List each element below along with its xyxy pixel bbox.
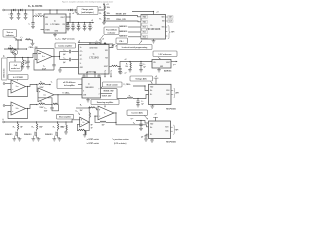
- ground range branch 3 gate: [53, 136, 55, 139]
- svg-text:MODE_DIV: MODE_DIV: [116, 14, 127, 16]
- arrow mode button: [112, 44, 116, 47]
- wire CELL_ON: [4, 48, 27, 50]
- svg-text:VOUT: VOUT: [166, 62, 170, 64]
- arrow current ADC: [145, 116, 148, 120]
- wire KOUT: [109, 66, 112, 68]
- svg-text:* = precision resistor: * = precision resistor: [112, 138, 129, 141]
- wire MODE_SW: [101, 88, 118, 90]
- ground C9: [88, 29, 92, 31]
- transistor Q3 range switch: [35, 130, 37, 138]
- wire feedback to output: [106, 121, 116, 123]
- resistor R2: [104, 11, 105, 15]
- svg-text:1Ω*: 1Ω*: [20, 126, 23, 128]
- node top diff input: [36, 84, 37, 85]
- svg-text:C₁₀: C₁₀: [63, 49, 66, 51]
- svg-text:10µ: 10µ: [86, 26, 88, 28]
- svg-text:D₁, D₂ BAT54: D₁, D₂ BAT54: [28, 5, 43, 8]
- input terminal J1: [3, 9, 5, 11]
- resistor R1: [104, 6, 105, 10]
- node KOUT filter: [119, 66, 120, 67]
- ground C18: [144, 139, 148, 141]
- svg-text:1Ω*: 1Ω*: [25, 63, 28, 65]
- wire U11 IN- cap: [146, 133, 149, 135]
- wire VOUT_DIV: [101, 93, 113, 95]
- svg-text:R₆: R₆: [25, 61, 27, 63]
- node range branch 2: [36, 121, 37, 122]
- ground U4 pins: [83, 74, 85, 76]
- svg-text:CP+: CP+: [80, 51, 83, 53]
- ground U5: [158, 68, 160, 70]
- svg-text:GND: GND: [160, 66, 163, 68]
- ground R18: [65, 131, 67, 133]
- capacitor C19 filter: [119, 67, 121, 69]
- diode D3 charge isolation: [68, 9, 69, 10]
- svg-text:C₁₅: C₁₅: [143, 64, 146, 66]
- svg-text:R₂₁: R₂₁: [53, 126, 56, 128]
- node divider rail junction: [103, 9, 104, 10]
- wire label to U6a: [17, 80, 19, 81]
- capacitor C11: [27, 57, 28, 58]
- resistor R₁₉ shunt: [17, 122, 19, 124]
- svg-text:NC: NC: [80, 55, 82, 57]
- wire summing minus: [95, 115, 98, 117]
- resistor R17 divider to ground: [85, 131, 86, 134]
- svg-text:R₂: R₂: [99, 13, 101, 15]
- resistor R4 base: [8, 48, 14, 49]
- svg-text:C₅-C₉: 10µF ceramic: C₅-C₉: 10µF ceramic: [55, 38, 76, 41]
- resistor R9: [129, 61, 130, 62]
- capacitor C18: [145, 134, 147, 135]
- svg-text:SCK: SCK: [162, 27, 165, 29]
- svg-text:1.2V reference: 1.2V reference: [158, 54, 172, 56]
- capacitor C2: [18, 10, 20, 14]
- wire bottom diff: [45, 104, 52, 106]
- IC U11 MCP3550 current: [149, 121, 171, 139]
- svg-text:ADR361: ADR361: [164, 70, 172, 73]
- ground divider: [103, 21, 105, 22]
- capacitor C7: [78, 22, 79, 23]
- svg-text:1µF: 1µF: [63, 62, 66, 64]
- callout box kelvin buffers: [8, 75, 28, 80]
- resistor R15 to summing node: [88, 118, 90, 123]
- op-amp U6b: [11, 102, 26, 115]
- wire flying cap split: [59, 52, 61, 60]
- resistor R3: [104, 17, 105, 21]
- svg-text:VOUT_DIV: VOUT_DIV: [102, 95, 112, 97]
- svg-text:KIN: KIN: [105, 58, 107, 60]
- wire indicator: [89, 43, 113, 45]
- resistor R18 bus load: [65, 121, 66, 122]
- transistor Q2 range switch: [16, 130, 18, 138]
- callout box combo amplifier: [55, 43, 76, 48]
- ground LED: [31, 43, 35, 45]
- capacitor C1: [11, 10, 13, 14]
- node range branch 1: [17, 121, 18, 122]
- ground C19: [118, 72, 122, 74]
- capacitor C16: [137, 99, 139, 102]
- ground C2: [17, 17, 21, 19]
- svg-text:¹ = DPDT switch: ¹ = DPDT switch: [86, 138, 99, 141]
- callout box differential amplifier: [57, 79, 82, 89]
- svg-text:C₁₆: C₁₆: [141, 101, 144, 103]
- svg-text:R₁₀: R₁₀: [40, 82, 43, 84]
- capacitor C13 feedback: [51, 105, 53, 108]
- ground C8: [83, 29, 87, 31]
- wire D5 junction to CELL_ON wire: [17, 40, 19, 49]
- wire filter node: [133, 95, 149, 99]
- svg-text:U₆c: U₆c: [43, 94, 46, 96]
- node CELL_DIV tap: [103, 20, 104, 21]
- svg-text:+V: +V: [115, 45, 117, 47]
- wire U7 input stub: [78, 84, 82, 86]
- wire top diff: [45, 84, 50, 86]
- wire U6a output: [26, 86, 28, 88]
- svg-text:² = DPDT switch: ² = DPDT switch: [86, 142, 99, 145]
- wire shunt minus: [77, 124, 79, 130]
- capacitor C5: [67, 22, 68, 23]
- svg-text:U₆b: U₆b: [16, 108, 19, 110]
- svg-text:±0.5V differen-: ±0.5V differen-: [63, 81, 76, 84]
- ground U1: [54, 33, 56, 35]
- capacitor C6: [72, 22, 73, 23]
- svg-text:10k*: 10k*: [102, 125, 105, 127]
- svg-text:10µ: 10µ: [69, 26, 71, 28]
- svg-text:1µF: 1µF: [141, 103, 144, 105]
- svg-text:MCP3550: MCP3550: [166, 108, 176, 110]
- pin box RA3: [141, 20, 148, 23]
- wire IC3 lower left pin: [60, 67, 79, 69]
- svg-text:R₁₉: R₁₉: [13, 126, 16, 128]
- svg-text:S−: S−: [80, 63, 82, 65]
- svg-text:U₁: U₁: [54, 21, 56, 23]
- svg-text:+: +: [120, 72, 121, 74]
- inductor L1: [34, 16, 44, 17]
- capacitor C4 input: [32, 17, 34, 23]
- sense terminal S+: [3, 83, 5, 85]
- capacitor C10 flying: [69, 50, 70, 54]
- svg-text:C₁₃: C₁₃: [44, 108, 47, 110]
- ground C5: [66, 29, 70, 31]
- node cell rail Q1: [14, 57, 15, 58]
- node inductor tap: [32, 9, 33, 10]
- capacitor C9: [89, 22, 90, 23]
- svg-text:+V: +V: [110, 71, 112, 73]
- wire Q1 base: [11, 49, 14, 52]
- svg-text:10µ: 10µ: [91, 26, 93, 28]
- svg-text:RC2: RC2: [143, 37, 146, 39]
- arrow charge point to D3: [75, 12, 79, 14]
- wire to op-amp minus: [38, 98, 52, 105]
- pin box RA4: [141, 15, 148, 18]
- svg-text:U₂: U₂: [150, 25, 152, 27]
- resistor R11: [39, 103, 45, 104]
- wire to op-amp plus: [37, 85, 38, 92]
- resistor R12 feedback: [53, 103, 58, 104]
- svg-text:100k: 100k: [107, 7, 110, 9]
- ground range branch 1 gate: [13, 136, 15, 139]
- ground C11: [26, 67, 30, 69]
- svg-text:IN+: IN+: [150, 127, 152, 129]
- pin box RC1: [141, 31, 148, 34]
- svg-text:tial amplifier: tial amplifier: [64, 84, 75, 87]
- svg-text:(wall adapter): (wall adapter): [81, 11, 94, 14]
- wire U8 SPI pins: [171, 90, 173, 92]
- IC U7 analog switch: [82, 78, 101, 99]
- ground C7: [77, 29, 81, 31]
- capacitor C3: [25, 10, 27, 14]
- svg-text:IN−: IN−: [150, 94, 152, 96]
- capacitor C8: [84, 22, 85, 23]
- wire C12 loop: [34, 59, 54, 70]
- wire U6b feedback: [8, 109, 28, 119]
- wire summing feedback: [95, 116, 100, 122]
- transistor Q4 range switch: [56, 130, 58, 138]
- ground lower pin: [58, 70, 62, 72]
- svg-text:V_CELL: V_CELL: [62, 92, 70, 94]
- svg-text:RANGE1¹: RANGE1¹: [119, 25, 127, 28]
- svg-text:PIC16F1936: PIC16F1936: [146, 28, 161, 31]
- wire flying cap 2: [60, 59, 69, 61]
- svg-text:L₁ 10µH: L₁ 10µH: [36, 14, 42, 16]
- callout box charge point: [77, 7, 98, 15]
- svg-text:Combo amplifier: Combo amplifier: [58, 46, 72, 48]
- wire FB pin: [66, 23, 69, 25]
- svg-text:indicator: indicator: [6, 34, 14, 37]
- svg-text:R₂₀: R₂₀: [32, 126, 35, 128]
- svg-text:+V: +V: [104, 71, 106, 73]
- svg-text:LTC3426: LTC3426: [51, 23, 61, 26]
- resistor R6 sense: [22, 57, 23, 58]
- IC U4 LTC1043 switched-cap block: [79, 45, 110, 75]
- svg-text:U₇: U₇: [88, 83, 90, 85]
- wire summing input rail: [76, 107, 89, 109]
- ground U11: [151, 139, 153, 141]
- svg-text:C₁₁: C₁₁: [63, 57, 66, 59]
- svg-text:100k*: 100k*: [40, 107, 44, 109]
- svg-text:VOUT: VOUT: [60, 17, 64, 19]
- svg-text:+V: +V: [78, 40, 80, 42]
- power +V divider top: [103, 3, 105, 5]
- ground U8: [151, 105, 153, 107]
- ground MCU: [153, 39, 155, 41]
- op-amp U10 shunt: [80, 117, 90, 127]
- ground C17: [139, 128, 143, 130]
- op-amp U3a buffer: [37, 50, 52, 63]
- switch SW1: [89, 45, 93, 48]
- wire VREF out: [171, 61, 176, 63]
- wire SPI pins: [166, 26, 168, 28]
- ground range branch 2 gate: [32, 136, 34, 139]
- resistor R16 feedback: [100, 121, 106, 122]
- svg-text:100k: 100k: [107, 19, 110, 21]
- sense terminal S-: [3, 105, 5, 107]
- wire V_CELL into U7: [81, 94, 83, 96]
- svg-text:X: X: [83, 91, 84, 93]
- svg-text:U₃a: U₃a: [42, 56, 45, 58]
- ground range branch 3 source: [58, 138, 60, 139]
- wire U3a output: [52, 56, 60, 58]
- svg-text:10µ: 10µ: [74, 26, 76, 28]
- transistor Q1: [12, 50, 17, 55]
- wire L1 to U1: [43, 16, 46, 18]
- ground C15: [139, 70, 143, 72]
- ground range branch 1 source: [18, 138, 20, 139]
- svg-text:SPI: SPI: [171, 32, 174, 34]
- svg-text:Voltage ADC: Voltage ADC: [135, 78, 147, 81]
- capacitor C17: [140, 121, 142, 125]
- wire U6a feedback: [8, 87, 28, 97]
- callout box ICSP connector: [117, 45, 152, 50]
- svg-text:RC0: RC0: [143, 27, 146, 29]
- wire LED D5: [15, 39, 19, 41]
- wire feedback up: [57, 95, 60, 105]
- svg-text:Q₁: Q₁: [3, 55, 5, 57]
- callout box shunt amplifier: [57, 114, 74, 119]
- bracket SPI group: [168, 26, 170, 39]
- IC U2 PIC16F1936 microcontroller: [141, 15, 166, 40]
- callout box voltage ADC: [130, 76, 153, 81]
- wire shunt plus from bus: [71, 121, 72, 122]
- svg-text:U₉: U₉: [104, 113, 106, 115]
- IC U1 boost converter LTC3426: [44, 14, 66, 33]
- svg-text:R₁₄: R₁₄: [80, 104, 83, 106]
- callout box mode button: [116, 38, 128, 44]
- svg-text:100k: 100k: [107, 13, 110, 15]
- wire summing plus node: [95, 108, 98, 110]
- svg-text:1µF: 1µF: [143, 66, 146, 68]
- wire Q1 collector: [14, 48, 16, 51]
- svg-text:C₁₂: C₁₂: [43, 65, 46, 67]
- callout box mode switch: [103, 82, 123, 87]
- power +V MCU: [132, 11, 154, 13]
- power flag opamp supply: [119, 71, 122, 74]
- svg-text:IN+: IN+: [150, 90, 152, 92]
- resistor R16b shunt feedback: [79, 129, 85, 130]
- svg-text:100Ω*: 100Ω*: [60, 126, 65, 128]
- pin box RC0: [141, 26, 148, 29]
- pin box RC2: [141, 35, 148, 38]
- ground C3: [24, 17, 28, 19]
- op-amp U6c difference: [38, 88, 54, 102]
- ground R9: [129, 69, 131, 70]
- svg-text:+V: +V: [125, 72, 127, 74]
- svg-text:VDD: VDD: [105, 50, 108, 52]
- power +V U7 pin2: [94, 73, 96, 78]
- wire cell rail: [7, 54, 37, 58]
- diode D2: [20, 9, 22, 11]
- arrow test indicator to LED: [14, 37, 18, 39]
- node shunt output: [89, 121, 90, 122]
- wire shunt feedback to output: [85, 122, 90, 131]
- resistor R10: [39, 83, 45, 84]
- svg-text:Mode switch: Mode switch: [107, 84, 119, 87]
- ground C6: [71, 29, 75, 31]
- svg-text:LTC1043: LTC1043: [89, 56, 99, 59]
- svg-text:KOUT: KOUT: [104, 66, 108, 68]
- op-amp U9 summing: [98, 106, 114, 120]
- svg-text:Power/Mode: Power/Mode: [106, 28, 117, 31]
- LED D5: [20, 39, 22, 41]
- wire KOUT to ref rail: [118, 62, 153, 67]
- svg-text:10µ: 10µ: [80, 26, 82, 28]
- svg-text:RANGE3¹: RANGE3¹: [119, 35, 127, 38]
- wire summing output: [114, 112, 116, 114]
- svg-text:U₆ LTC2051: U₆ LTC2051: [13, 77, 23, 79]
- svg-text:10Ω*: 10Ω*: [39, 126, 43, 128]
- op-amp U6a: [11, 80, 26, 93]
- svg-text:RC1: RC1: [143, 32, 146, 34]
- cell holder box: [2, 58, 8, 80]
- wire T_out: [117, 89, 127, 99]
- node MODE_DIV tap: [103, 15, 104, 16]
- diode D1: [13, 9, 15, 11]
- arrow reference: [158, 57, 161, 59]
- resistor R₂₀ shunt: [36, 122, 38, 124]
- svg-text:1µF: 1µF: [141, 136, 144, 138]
- wire LED to ground: [31, 40, 33, 43]
- wire CELL_DIV: [104, 20, 141, 23]
- wire U1 output: [66, 16, 70, 18]
- wire S+ to U6a: [5, 83, 11, 85]
- svg-text:R₄: R₄: [10, 46, 12, 48]
- svg-text:U₄: U₄: [93, 54, 95, 56]
- svg-text:R₁₁: R₁₁: [40, 102, 43, 104]
- IC U8 MCP3550 voltage: [149, 84, 172, 104]
- pin box ICSPCLK: [166, 20, 168, 22]
- svg-text:MAX4053: MAX4053: [86, 86, 94, 89]
- svg-text:GND: GND: [80, 67, 83, 69]
- svg-text:MODE_SW: MODE_SW: [104, 91, 114, 93]
- callout box 1.2V reference: [153, 51, 177, 57]
- resistor R₂₁ shunt: [57, 122, 59, 124]
- ground U7: [87, 98, 89, 100]
- callout box power mode indicator: [104, 27, 119, 35]
- arrow summing: [104, 105, 106, 108]
- svg-text:CELL_DIV: CELL_DIV: [116, 19, 126, 21]
- node bottom diff input: [36, 104, 37, 105]
- arrow voltage ADC: [151, 81, 153, 83]
- svg-text:Current ADC: Current ADC: [131, 112, 143, 115]
- power +V rail end arrow: [92, 22, 94, 24]
- wire MODE_DIV: [104, 16, 141, 17]
- callout box cell under test: [10, 62, 22, 71]
- resistor R4 indicator: [104, 43, 106, 44]
- arrow mode switch: [101, 87, 103, 89]
- capacitor C11 flying: [69, 58, 70, 62]
- ground C16: [136, 105, 140, 107]
- svg-text:R₃: R₃: [99, 19, 101, 21]
- IC U5 voltage reference: [152, 60, 171, 69]
- capacitor C12 filter: [53, 57, 55, 65]
- svg-text:In-circuit serial programming: In-circuit serial programming: [122, 46, 148, 49]
- capacitor C15: [140, 61, 141, 62]
- svg-text:VIN: VIN: [153, 62, 155, 64]
- ground C4: [31, 26, 35, 28]
- ground R6: [22, 66, 24, 67]
- wire U4 VDD to +V: [109, 45, 113, 47]
- svg-text:IN−: IN−: [150, 134, 152, 136]
- svg-text:indicator: indicator: [108, 32, 116, 35]
- svg-text:Y: Y: [98, 89, 99, 91]
- svg-text:Shunt amplifier: Shunt amplifier: [59, 116, 72, 119]
- wire current bus: [5, 121, 72, 123]
- wire inductor feed: [32, 10, 34, 17]
- bus terminal: [3, 121, 5, 123]
- svg-text:Test on: Test on: [6, 31, 13, 34]
- svg-text:RANGE2¹: RANGE2¹: [119, 30, 127, 33]
- wire U1 top pins to rail: [49, 10, 51, 14]
- callout box current ADC: [127, 110, 148, 115]
